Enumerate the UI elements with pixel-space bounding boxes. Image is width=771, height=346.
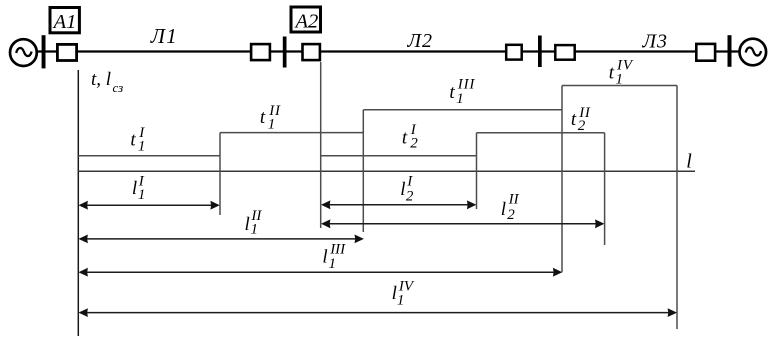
svg-text:l: l xyxy=(686,150,692,172)
svg-text:l: l xyxy=(501,199,506,220)
svg-text:1: 1 xyxy=(616,72,624,88)
svg-text:А2: А2 xyxy=(294,10,319,32)
svg-text:l: l xyxy=(400,179,405,200)
svg-text:1: 1 xyxy=(329,256,337,272)
svg-text:t: t xyxy=(609,63,615,84)
svg-text:2: 2 xyxy=(410,136,418,152)
svg-text:1: 1 xyxy=(456,91,464,107)
svg-text:1: 1 xyxy=(251,222,259,238)
svg-text:2: 2 xyxy=(406,188,414,204)
svg-text:l: l xyxy=(132,178,137,199)
svg-text:1: 1 xyxy=(138,187,146,203)
svg-text:А1: А1 xyxy=(52,11,77,33)
svg-text:II: II xyxy=(508,192,520,208)
svg-text:Л1: Л1 xyxy=(150,24,178,48)
svg-text:t: t xyxy=(449,82,455,103)
svg-text:t: t xyxy=(260,107,266,128)
svg-text:сз: сз xyxy=(113,80,124,95)
svg-text:2: 2 xyxy=(578,118,586,134)
svg-text:t: t xyxy=(402,127,408,148)
svg-text:1: 1 xyxy=(397,293,405,309)
svg-text:t: t xyxy=(571,109,577,130)
svg-text:l: l xyxy=(322,246,327,267)
svg-text:2: 2 xyxy=(507,207,515,223)
svg-text:I: I xyxy=(406,174,413,190)
svg-text:t: t xyxy=(130,129,136,150)
svg-text:Л3: Л3 xyxy=(642,31,669,53)
svg-text:1: 1 xyxy=(138,139,146,155)
svg-text:l: l xyxy=(245,214,250,235)
svg-text:t, l: t, l xyxy=(91,69,111,90)
svg-text:1: 1 xyxy=(268,117,276,133)
svg-text:Л2: Л2 xyxy=(407,30,434,52)
